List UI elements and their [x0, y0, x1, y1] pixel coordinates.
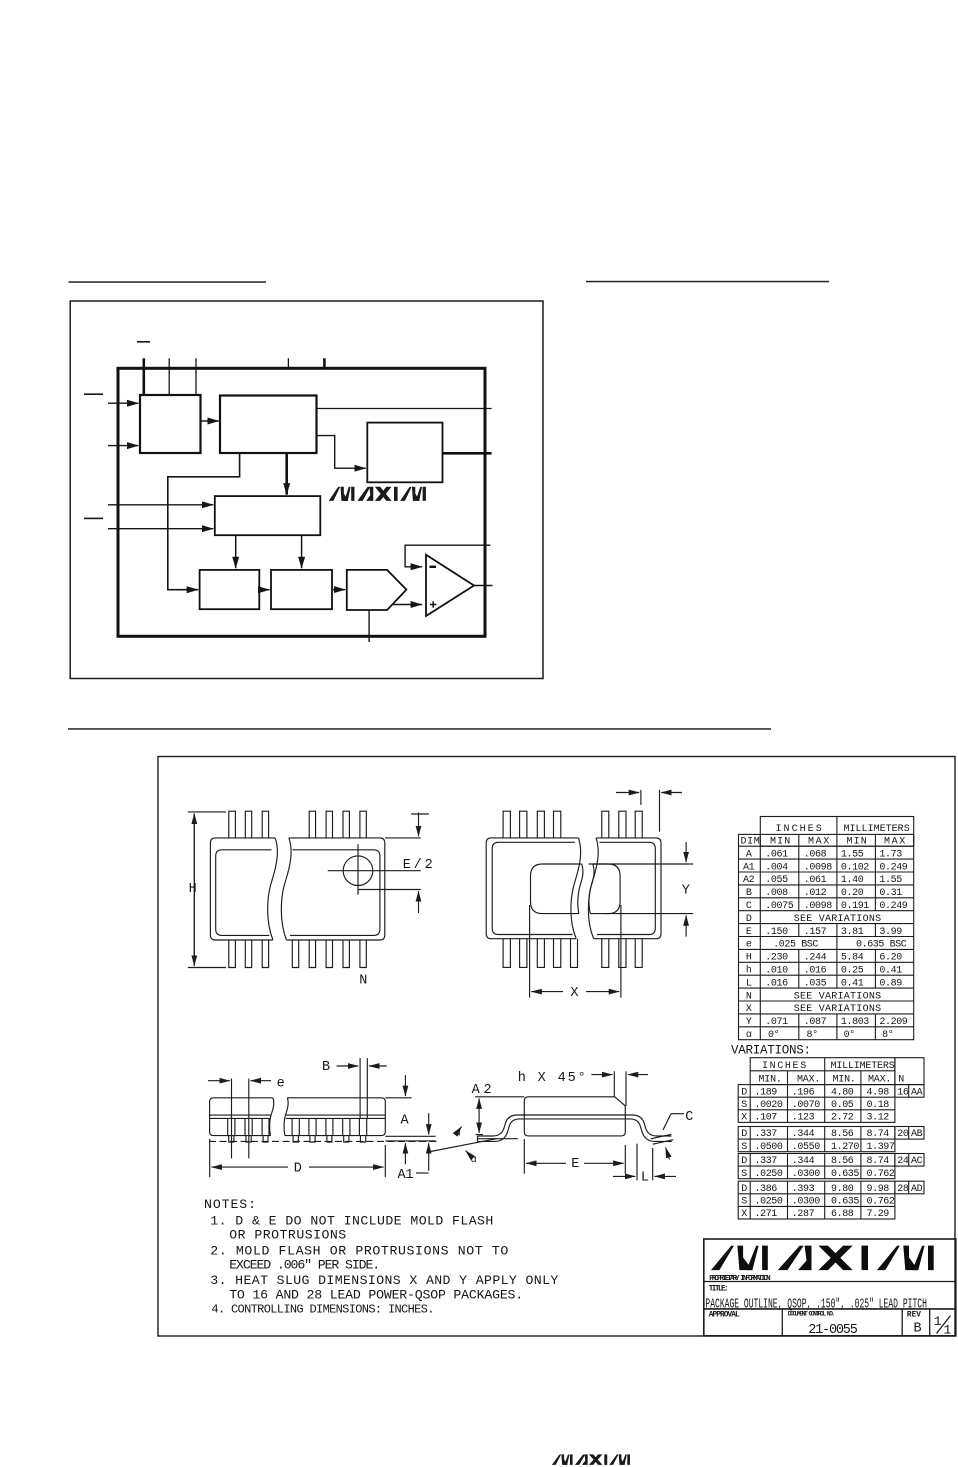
VARIATIONS-TABLE: [731, 1044, 924, 1220]
svg-text:.244: .244: [804, 953, 827, 964]
svg-text:28: 28: [897, 1184, 909, 1195]
svg-text:.271: .271: [755, 1209, 778, 1220]
opamp U1: [426, 555, 474, 616]
overline dash above pin: [137, 341, 150, 343]
h X 45 dimension: [591, 1071, 648, 1106]
X dimension lines: [530, 905, 621, 998]
svg-text:20: 20: [897, 1129, 909, 1140]
svg-text:.068: .068: [804, 849, 827, 860]
svg-text:8.56: 8.56: [831, 1129, 854, 1140]
left gull wing lead: [478, 1115, 525, 1141]
svg-text:.0500: .0500: [755, 1142, 783, 1153]
svg-text:X: X: [741, 1113, 747, 1124]
svg-text:TITLE:: TITLE:: [709, 1285, 729, 1293]
pin stub P1: [143, 358, 146, 395]
svg-text:1.55: 1.55: [879, 875, 902, 886]
N label: [359, 974, 367, 989]
MAXIM logo title block: [711, 1246, 934, 1271]
inner outline left part v2: [492, 842, 575, 934]
seating plane dashed line: [209, 1140, 437, 1142]
svg-text:C: C: [685, 1110, 693, 1125]
note 4: [211, 1303, 434, 1317]
H dimension line: [188, 812, 226, 968]
body outline right part v2: [588, 838, 661, 939]
svg-text:21-0055: 21-0055: [808, 1323, 858, 1338]
body outline left part with S break: [210, 838, 277, 940]
svg-text:.0300: .0300: [792, 1169, 820, 1180]
overline dash input3: [84, 518, 103, 520]
svg-text:.337: .337: [755, 1156, 778, 1167]
dim table rows text: [743, 849, 908, 1041]
lead pitch ticks top right v2: [616, 790, 682, 832]
svg-text:N: N: [746, 991, 752, 1002]
svg-text:A1: A1: [743, 862, 755, 873]
title label: [709, 1285, 729, 1293]
svg-text:.393: .393: [792, 1184, 815, 1195]
E/2 center reference line: [358, 889, 421, 891]
NOTES: [204, 1197, 558, 1317]
svg-text:.0098: .0098: [804, 862, 832, 873]
svg-text:h: h: [746, 965, 752, 977]
A label: [401, 1114, 410, 1129]
svg-text:MILLIMETERS: MILLIMETERS: [831, 1061, 895, 1072]
heading underline right: [586, 281, 829, 283]
wire B5 down arrow to B4: [235, 535, 237, 568]
A dimension: [385, 1075, 435, 1164]
svg-text:MIN: MIN: [770, 837, 790, 848]
svg-text:.004: .004: [765, 862, 788, 873]
svg-text:.150: .150: [765, 927, 788, 938]
front leads left group: [228, 1118, 269, 1142]
svg-text:1.397: 1.397: [867, 1142, 895, 1153]
svg-text:E: E: [571, 1157, 579, 1172]
alpha label: [471, 1155, 477, 1166]
svg-text:C: C: [746, 901, 752, 912]
wire B2 right output: [317, 408, 492, 410]
svg-text:0.249: 0.249: [879, 901, 907, 912]
bottom pins right group v2: [602, 939, 642, 968]
svg-text:6.20: 6.20: [879, 953, 902, 964]
svg-text:0.249: 0.249: [879, 862, 907, 873]
rev label: [907, 1312, 921, 1320]
pin1 crosshair: [328, 844, 421, 895]
svg-text:A: A: [746, 849, 752, 860]
block B4: [200, 570, 260, 609]
front leads right group: [292, 1118, 367, 1142]
body outline right part with S break: [281, 838, 384, 940]
note 1 line 1: [210, 1214, 493, 1229]
svg-text:Y: Y: [682, 884, 690, 899]
front body right part with S break: [284, 1098, 385, 1136]
svg-text:2.209: 2.209: [879, 1017, 907, 1028]
E dimension: [524, 1139, 625, 1174]
wire feedback to opamp minus: [405, 545, 490, 567]
svg-text:.337: .337: [755, 1129, 778, 1140]
C label: [685, 1110, 693, 1125]
svg-text:8°: 8°: [807, 1029, 818, 1041]
document control no label: [788, 1311, 836, 1318]
PKG-TOP-VIEW: [188, 811, 433, 988]
heat slug left part: [531, 864, 582, 914]
package outline frame: [158, 757, 955, 1337]
svg-text:0°: 0°: [768, 1029, 779, 1041]
note 3 line 1: [210, 1273, 558, 1288]
svg-text:0.18: 0.18: [867, 1100, 890, 1111]
svg-text:1. D & E DO NOT INCLUDE MOLD F: 1. D & E DO NOT INCLUDE MOLD FLASH: [210, 1214, 493, 1229]
svg-text:MIN: MIN: [847, 837, 867, 848]
wire input4 arrow into B5: [108, 528, 213, 530]
block B5: [215, 496, 320, 535]
svg-text:.008: .008: [765, 888, 788, 899]
title text: [705, 1296, 927, 1312]
svg-text:TO 16 AND 28 LEAD POWER-QSOP P: TO 16 AND 28 LEAD POWER-QSOP PACKAGES.: [229, 1287, 523, 1302]
svg-text:.0020: .0020: [755, 1100, 783, 1111]
svg-text:.0070: .0070: [792, 1100, 820, 1111]
L dimension: [613, 1144, 676, 1181]
svg-text:.0098: .0098: [804, 901, 832, 912]
FRONT-VIEW: [208, 1058, 437, 1183]
group AB box: [738, 1127, 895, 1152]
svg-text:e: e: [277, 1077, 285, 1092]
svg-text:SEE VARIATIONS: SEE VARIATIONS: [794, 914, 881, 925]
bottom pins left group v2: [503, 939, 577, 968]
svg-text:OR PROTRUSIONS: OR PROTRUSIONS: [229, 1227, 346, 1242]
group AC box: [738, 1154, 895, 1179]
svg-text:D: D: [741, 1129, 747, 1140]
D dimension: [210, 1139, 386, 1177]
wire B7 to opamp plus arrow: [392, 604, 423, 606]
Y label: [682, 884, 690, 899]
svg-text:.071: .071: [765, 1017, 788, 1028]
svg-text:MILLIMETERS: MILLIMETERS: [844, 824, 910, 835]
wire B6 to B7 arrow: [332, 589, 345, 591]
svg-text:.016: .016: [804, 966, 827, 977]
svg-text:.035: .035: [804, 978, 827, 989]
note 3 line 2: [229, 1287, 523, 1302]
svg-text:0.762: 0.762: [867, 1169, 895, 1180]
svg-text:.196: .196: [792, 1087, 815, 1098]
svg-text:B: B: [322, 1060, 330, 1075]
note 1 line 2: [229, 1227, 346, 1242]
MAIN-DIM-TABLE: [739, 817, 914, 1042]
functional diagram frame: [70, 301, 543, 679]
svg-text:L: L: [746, 978, 752, 989]
svg-text:2.72: 2.72: [831, 1113, 854, 1124]
svg-text:3.12: 3.12: [867, 1113, 890, 1124]
E label: [571, 1157, 579, 1172]
wire input1 arrow into B1: [108, 402, 139, 404]
svg-text:N: N: [359, 974, 367, 989]
heading underline left: [69, 281, 267, 283]
top pins left group: [229, 811, 269, 838]
svg-text:3. HEAT SLUG DIMENSIONS X AND: 3. HEAT SLUG DIMENSIONS X AND Y APPLY ON…: [210, 1273, 558, 1288]
svg-text:D: D: [746, 914, 752, 925]
heat slug right part: [590, 864, 620, 914]
svg-text:A2: A2: [472, 1083, 492, 1098]
e dimension ticks and arrows: [208, 1079, 271, 1159]
X label: [570, 986, 578, 1001]
svg-text:AC: AC: [911, 1156, 923, 1167]
svg-text:.061: .061: [804, 875, 827, 886]
svg-text:S: S: [741, 1169, 747, 1180]
alpha seating line and slant: [428, 1139, 518, 1152]
svg-text:16: 16: [897, 1087, 909, 1098]
svg-text:.344: .344: [792, 1129, 815, 1140]
front body left part with S break: [210, 1098, 274, 1136]
e label: [277, 1077, 285, 1092]
block B3: [367, 423, 442, 483]
A1 label: [398, 1168, 414, 1183]
svg-text:SEE VARIATIONS: SEE VARIATIONS: [794, 991, 881, 1002]
opamp plus sign: [430, 601, 436, 607]
C dimension: [651, 1114, 684, 1160]
svg-text:.016: .016: [765, 978, 788, 989]
svg-text:B: B: [746, 888, 752, 899]
svg-text:AD: AD: [911, 1184, 923, 1195]
end view body: [524, 1097, 625, 1136]
H label: [189, 882, 197, 897]
svg-text:X: X: [570, 986, 578, 1001]
svg-text:.061: .061: [765, 849, 788, 860]
svg-text:A2: A2: [743, 875, 755, 886]
svg-text:1.73: 1.73: [879, 849, 902, 860]
svg-text:1.40: 1.40: [841, 875, 864, 886]
svg-text:0.635: 0.635: [831, 1169, 859, 1180]
svg-text:1.55: 1.55: [841, 849, 864, 860]
pin stub P3: [195, 358, 197, 395]
variations heading: [731, 1044, 811, 1058]
svg-text:S: S: [741, 1197, 747, 1208]
IC boundary box: [118, 368, 485, 636]
svg-text:REV: REV: [907, 1312, 921, 1320]
svg-text:0.41: 0.41: [841, 978, 864, 989]
svg-text:3.81: 3.81: [841, 927, 864, 938]
svg-text:8.56: 8.56: [831, 1156, 854, 1167]
opamp minus sign: [430, 566, 437, 568]
svg-text:E: E: [746, 927, 752, 938]
A2 label: [472, 1083, 492, 1098]
E/2 top tick and down arrow: [385, 813, 429, 838]
wire B4 to B6 arrow: [259, 589, 269, 591]
TITLE-BLOCK: [704, 1239, 956, 1338]
variations table header text: [759, 1061, 905, 1085]
svg-text:N: N: [898, 1075, 904, 1086]
svg-text:A1: A1: [398, 1168, 414, 1183]
document number: [808, 1323, 858, 1338]
h X 45 label: [518, 1071, 586, 1086]
svg-text:L: L: [641, 1171, 649, 1186]
svg-text:.287: .287: [792, 1209, 815, 1220]
section rule: [68, 728, 771, 730]
wire B7 bottom stub: [368, 610, 370, 642]
svg-text:.055: .055: [765, 875, 788, 886]
svg-text:S: S: [741, 1100, 747, 1111]
svg-text:AA: AA: [911, 1087, 923, 1098]
svg-text:B: B: [914, 1321, 922, 1336]
svg-text:DIM: DIM: [741, 837, 760, 848]
Y dimension lines: [589, 842, 693, 937]
svg-text:Y: Y: [746, 1017, 752, 1028]
svg-text:α: α: [746, 1030, 752, 1041]
svg-text:MAX.: MAX.: [797, 1075, 820, 1086]
svg-text:1: 1: [934, 1314, 942, 1329]
footer MAXIM logo: [553, 1455, 630, 1465]
note 2 line 1: [210, 1243, 508, 1258]
svg-text:0.41: 0.41: [879, 966, 902, 977]
rev value: [914, 1321, 922, 1336]
group AD box: [738, 1181, 895, 1219]
svg-text:0.25: 0.25: [841, 966, 864, 977]
svg-text:.123: .123: [792, 1113, 815, 1124]
svg-text:1.803: 1.803: [841, 1017, 869, 1028]
svg-text:24: 24: [897, 1156, 909, 1167]
svg-text:.157: .157: [804, 927, 827, 938]
E/2 label: [403, 858, 433, 873]
block B1: [140, 395, 201, 453]
wire B2 bottom thick arrow to B5: [285, 453, 288, 495]
svg-text:.087: .087: [804, 1017, 827, 1028]
svg-text:.0250: .0250: [755, 1169, 783, 1180]
approval label: [709, 1312, 740, 1320]
svg-text:D: D: [741, 1087, 747, 1098]
note 2 line 2: [229, 1258, 380, 1273]
heat slug break curves: [578, 864, 594, 914]
block B2: [220, 396, 317, 454]
B label: [322, 1060, 330, 1075]
svg-text:4.80: 4.80: [831, 1087, 854, 1098]
body outline left part v2: [486, 838, 580, 939]
svg-text:MAX: MAX: [884, 837, 905, 848]
bottom pins right group: [292, 940, 366, 968]
pin1 indicator circle: [343, 856, 373, 886]
svg-text:0.191: 0.191: [841, 901, 869, 912]
bottom pins left group: [229, 940, 269, 968]
pin stub P5: [323, 358, 326, 368]
D label: [294, 1161, 302, 1176]
END-VIEW: [428, 1071, 693, 1186]
svg-text:0.762: 0.762: [867, 1197, 895, 1208]
svg-text:0.102: 0.102: [841, 862, 869, 873]
wire B1 to B2 arrow: [201, 420, 219, 422]
svg-text:A: A: [401, 1114, 410, 1129]
variations table grid: [738, 1058, 924, 1219]
svg-text:.0550: .0550: [792, 1142, 820, 1153]
svg-text:8.74: 8.74: [867, 1129, 890, 1140]
wire B2 to B3 bent arrow: [317, 436, 366, 469]
end view parting lines: [524, 1115, 625, 1119]
svg-text:8.74: 8.74: [867, 1156, 890, 1167]
block B7 pentagon: [347, 570, 407, 610]
svg-text:α: α: [471, 1155, 477, 1166]
svg-text:H: H: [189, 882, 197, 897]
svg-text:.344: .344: [792, 1156, 815, 1167]
svg-text:4.98: 4.98: [867, 1087, 890, 1098]
svg-text:H: H: [746, 953, 752, 964]
svg-text:D: D: [741, 1156, 747, 1167]
svg-text:PROPRIETARY INFORMATION: PROPRIETARY INFORMATION: [709, 1275, 770, 1283]
svg-text:.230: .230: [765, 953, 788, 964]
TITLE-BLOCK: [0, 0, 1, 1]
svg-text:0.635 BSC: 0.635 BSC: [856, 940, 907, 951]
svg-text:INCHES: INCHES: [776, 824, 822, 835]
svg-text:.0300: .0300: [792, 1197, 820, 1208]
svg-text:0.05: 0.05: [831, 1100, 854, 1111]
svg-text:0.31: 0.31: [879, 888, 902, 899]
front body parting lines: [210, 1115, 386, 1118]
svg-text:e: e: [746, 940, 752, 951]
svg-text:0°: 0°: [844, 1029, 855, 1041]
svg-text:.386: .386: [755, 1184, 778, 1195]
PKG-TOP-VIEW-2: [486, 790, 693, 1001]
svg-text:MIN.: MIN.: [759, 1075, 782, 1086]
right gull wing lead: [625, 1115, 672, 1141]
pin stub P2: [168, 358, 170, 395]
svg-text:8°: 8°: [882, 1029, 893, 1041]
page 1 of 1: [934, 1314, 952, 1337]
svg-text:D: D: [741, 1184, 747, 1195]
svg-text:3.99: 3.99: [879, 927, 902, 938]
svg-text:DOCUMENT CONTROL NO.: DOCUMENT CONTROL NO.: [788, 1311, 836, 1318]
svg-text:VARIATIONS:: VARIATIONS:: [731, 1044, 811, 1058]
svg-text:X: X: [741, 1209, 747, 1220]
E/2 bottom up arrow: [418, 891, 420, 913]
svg-text:X: X: [746, 1004, 752, 1015]
svg-text:6.88: 6.88: [831, 1209, 854, 1220]
top pins right group v2: [602, 811, 642, 838]
wire B2 bottom bent to B4 arrow: [168, 453, 240, 590]
svg-text:.010: .010: [765, 966, 788, 977]
svg-text:NOTES:: NOTES:: [204, 1197, 256, 1212]
wire input3 arrow into B5: [108, 504, 213, 506]
svg-text:.107: .107: [755, 1113, 778, 1124]
alpha angle arrows: [459, 1127, 471, 1157]
svg-text:9.80: 9.80: [831, 1184, 854, 1195]
block B6: [271, 570, 332, 609]
svg-text:9.98: 9.98: [867, 1184, 890, 1195]
A2 dimension: [475, 1097, 524, 1135]
svg-text:AB: AB: [911, 1129, 923, 1140]
svg-text:EXCEED .006″ PER SIDE.: EXCEED .006″ PER SIDE.: [229, 1258, 380, 1273]
proprietary information text: [709, 1275, 770, 1283]
svg-text:1.270: 1.270: [831, 1142, 859, 1153]
A1 dimension: [416, 1113, 429, 1173]
L label: [641, 1171, 649, 1186]
pin stub P4: [287, 358, 289, 368]
svg-text:MAX.: MAX.: [868, 1075, 891, 1086]
dim table header text: [741, 824, 910, 848]
group AA box: [738, 1085, 895, 1123]
wire B3 right output thick: [443, 452, 492, 455]
svg-text:D: D: [294, 1161, 302, 1176]
dim table grid: [739, 817, 914, 1040]
title block grid: [704, 1239, 956, 1336]
svg-text:5.84: 5.84: [841, 953, 864, 964]
svg-text:E/2: E/2: [403, 858, 433, 873]
overline dash input1: [84, 393, 103, 395]
wire opamp output: [474, 585, 493, 587]
svg-text:0.635: 0.635: [831, 1197, 859, 1208]
svg-text:APPROVAL: APPROVAL: [709, 1312, 740, 1320]
svg-text:0.20: 0.20: [841, 888, 864, 899]
wire B5 down arrow to B6: [301, 535, 303, 568]
variations rows text: [741, 1087, 922, 1220]
top pins right group: [309, 811, 366, 838]
MAXIM logo in diagram: [330, 487, 426, 500]
notes heading: [204, 1197, 256, 1212]
B dimension ticks and arrows: [337, 1058, 387, 1118]
NOTES: [0, 0, 1, 1]
svg-text:.012: .012: [804, 888, 827, 899]
